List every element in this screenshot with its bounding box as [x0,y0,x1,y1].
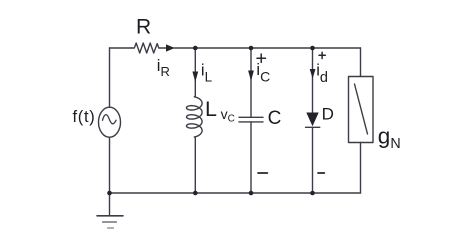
wire: diode branch top [312,48,314,113]
diode D cathode bar [306,126,320,128]
node B junction dot (top, capacitor) [249,46,254,51]
svg-text:f(t): f(t) [73,108,96,126]
ground top bar [97,215,123,217]
wire: diode bottom to rail [312,127,314,193]
label minus (diode) [318,172,324,174]
svg-text:iL: iL [201,62,213,85]
wire: bottom rail [110,192,361,194]
inductor L coil [187,97,203,137]
source sine symbol [103,115,117,124]
label plus (capacitor) [257,54,266,62]
wire: capacitor branch top [250,48,252,117]
svg-text:R: R [136,16,151,39]
node C junction dot (top, diode) [310,46,315,51]
junction dot bottom (capacitor) [249,191,254,196]
current arrow iC head [248,71,254,82]
wire: top rail from resistor arrow to right corner [174,47,361,49]
wire: right vertical drop to gN box [360,48,362,77]
ground bottom bar [108,227,114,229]
resistor R1 zigzag [132,43,167,53]
wire: source bottom to bottom rail and down to ground [109,137,111,215]
gN box (negative conductance) [349,77,374,143]
wire: capacitor bottom to rail [250,122,252,193]
svg-text:D: D [322,105,334,124]
svg-text:vC: vC [221,106,235,125]
wire: top rail left segment to resistor [110,47,132,49]
label minus (capacitor) [258,172,267,174]
svg-text:iC: iC [256,61,270,85]
current arrow id head [310,69,316,79]
capacitor C top plate [239,116,263,118]
wire: inductor bottom to rail [194,137,196,193]
svg-text:C: C [268,108,282,129]
node A junction dot (top, inductor) [193,46,198,51]
current arrow iL head [192,72,198,83]
junction dot bottom (inductor) [193,191,198,196]
ground middle bar [103,221,117,223]
wire: left vertical from top rail to source top [109,48,111,107]
wire: inductor branch top (with current arrow line) [194,48,196,97]
diode D triangle [306,113,318,127]
junction dot bottom (diode) [310,191,315,196]
gN diagonal line [355,84,368,134]
wire: gN box bottom to bottom rail [360,143,362,194]
svg-text:gN: gN [378,124,401,153]
source f(t) circle [99,107,121,137]
capacitor C bottom plate [239,121,263,123]
current arrow iR head [166,44,175,51]
junction dot bottom left (source) [107,191,112,196]
svg-text:id: id [316,62,328,86]
label plus (diode) [319,52,325,58]
svg-text:iR: iR [157,57,170,79]
svg-text:L: L [205,97,217,121]
